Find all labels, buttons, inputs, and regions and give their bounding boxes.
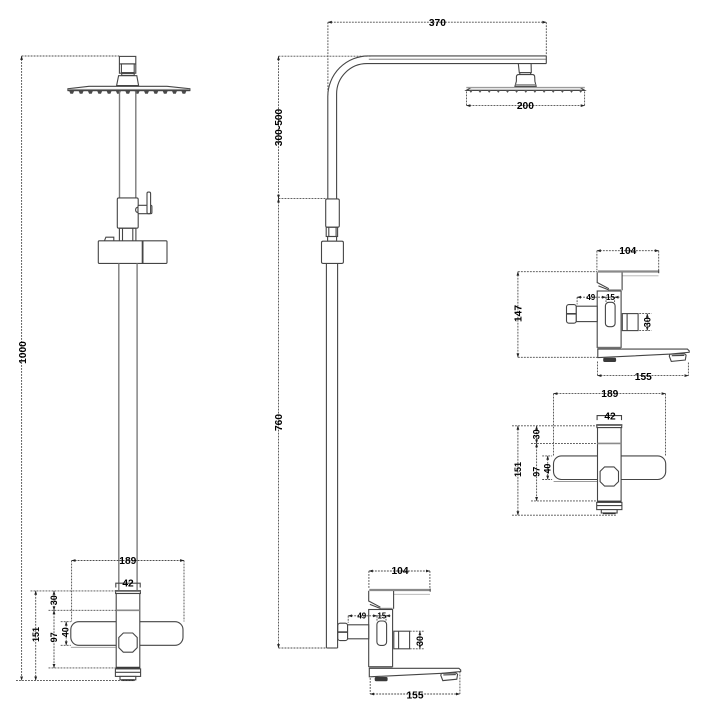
riser pipe lower segment: [119, 263, 137, 590]
dim 370 lines: [328, 21, 546, 23]
svg-text:370: 370: [429, 18, 446, 29]
svg-text:151: 151: [31, 627, 41, 642]
aerator (left front): [120, 676, 136, 679]
svg-text:104: 104: [392, 566, 409, 577]
svg-text:15: 15: [377, 612, 386, 621]
svg-text:30: 30: [532, 429, 542, 439]
slider bracket: [98, 241, 167, 264]
lever (side, middle view): [369, 589, 430, 591]
bottom aerator dark (middle view): [375, 677, 388, 681]
svg-text:104: 104: [619, 246, 636, 257]
spout tip aerator (middle view): [441, 673, 458, 681]
arrows dim 189 left: [71, 559, 75, 562]
slider bracket tab: [104, 237, 114, 241]
dim 104 right lines: [597, 250, 659, 252]
diverter body: [117, 198, 138, 228]
dim 155 right lines: [598, 375, 689, 377]
center knob (left front): [119, 633, 137, 652]
svg-text:40: 40: [61, 627, 71, 637]
dim 42 tick lines (solid): [116, 416, 622, 588]
head cap (side): [515, 75, 536, 87]
dim 1000 lines: [21, 56, 23, 680]
dim 40 right lines: [547, 456, 549, 480]
bottom plate (right front): [597, 502, 622, 509]
bottom plate (left front): [115, 669, 140, 677]
arrows dim 30 left: [53, 591, 56, 595]
arrows dim 30 right-top: [646, 313, 649, 317]
svg-text:300-500: 300-500: [274, 108, 285, 146]
adjuster sleeve: [326, 199, 340, 227]
dim 200 lines: [467, 105, 585, 107]
svg-text:189: 189: [119, 556, 136, 567]
head nozzles (side): [469, 90, 583, 93]
center knob (right front): [600, 467, 618, 486]
body bottom edge (left front): [116, 667, 140, 669]
body divider line (left front): [116, 609, 140, 611]
svg-text:760: 760: [274, 414, 285, 431]
arrows dim 1000: [20, 56, 23, 60]
mixer body (right front): [598, 428, 622, 502]
shower head plate (side): [466, 88, 585, 91]
body bottom edge (right front): [597, 501, 621, 503]
svg-text:147: 147: [514, 305, 525, 322]
svg-text:42: 42: [604, 411, 616, 422]
dim 49 middle lines: [348, 615, 377, 617]
riser pipe (upper, side): [327, 97, 329, 199]
supply hex nut (right view): [567, 305, 577, 324]
dim 147 lines: [517, 272, 519, 358]
head connector stem (side): [518, 64, 531, 73]
head nozzles: [69, 91, 186, 94]
spout tip aerator (right view): [669, 354, 686, 362]
arrows dim 189 right: [553, 392, 557, 395]
diverter handle stem: [136, 207, 138, 212]
arrows dim 40 right: [546, 456, 549, 460]
connector ring: [122, 73, 135, 75]
dim 40 left lines: [65, 622, 67, 646]
mixer body (side, right view): [597, 291, 621, 347]
dim 30 middle lines: [419, 631, 421, 649]
svg-text:200: 200: [517, 101, 534, 112]
arrows dim 151 left: [34, 591, 37, 595]
dim 97 left lines: [53, 610, 55, 668]
bottom aerator dark (right view): [603, 358, 616, 362]
handle bar (left front): [71, 622, 183, 646]
dim 15 right lines: [606, 296, 620, 298]
lever neck wedge (right view): [597, 272, 609, 288]
cartridge (middle view): [377, 621, 387, 645]
sleeve neck: [326, 227, 337, 236]
connector trapezoid: [117, 76, 139, 86]
svg-text:155: 155: [407, 690, 424, 701]
svg-text:30: 30: [415, 636, 425, 646]
arrows dim 40 left: [65, 621, 68, 625]
supply hex nut (middle view): [338, 623, 348, 640]
ceiling connector block: [119, 56, 135, 73]
dim 189 left lines: [72, 560, 184, 562]
arrows dim 104 middle: [369, 570, 373, 573]
riser pipe (lower, side): [325, 263, 327, 648]
svg-text:97: 97: [532, 467, 542, 477]
cartridge (right view): [605, 302, 615, 326]
dim 104 middle lines: [369, 570, 430, 572]
dim 760 lines: [278, 199, 280, 648]
lever neck wedge (middle view): [369, 591, 381, 607]
arrows dim 15 right: [614, 296, 618, 299]
shower head plate (front): [68, 86, 190, 90]
arrows dim 147: [517, 271, 520, 275]
arrows dim 104 right: [597, 249, 601, 252]
body bottom shade (middle view): [369, 666, 393, 668]
dim 42 right: [597, 416, 621, 421]
mixer body (left front): [116, 594, 140, 668]
arrows dim 300-500: [277, 56, 280, 60]
arm bend inner: [337, 64, 367, 94]
dim 151 left lines: [35, 591, 37, 681]
dim 97 right lines: [536, 443, 538, 501]
dim 15 middle lines: [377, 615, 391, 617]
supply tube (middle view): [348, 625, 369, 639]
mixer wall flange (left front): [116, 591, 141, 594]
svg-text:151: 151: [513, 462, 523, 477]
arm bend outer: [328, 56, 369, 97]
body bottom shade (right view): [597, 347, 621, 349]
arrows dim 155 middle: [370, 693, 374, 696]
svg-text:155: 155: [635, 372, 652, 383]
svg-text:40: 40: [543, 464, 553, 474]
dim 30 right-bottom lines: [536, 426, 538, 444]
arrows dim 155 right: [597, 374, 601, 377]
arrows dim 97 left: [53, 610, 56, 614]
lever (side, right view): [598, 270, 659, 272]
svg-text:189: 189: [601, 389, 618, 400]
top arm horizontal pipe: [368, 55, 546, 57]
svg-text:1000: 1000: [18, 341, 29, 364]
arrows dim 30 middle: [419, 631, 422, 635]
shower outlet block (right view): [622, 314, 638, 331]
riser pipe upper segment: [120, 91, 136, 198]
svg-text:30: 30: [49, 595, 59, 605]
svg-text:42: 42: [122, 578, 134, 589]
dim 49 right lines: [577, 296, 606, 298]
arrows dim 151 right: [517, 426, 520, 430]
dim 189 right lines: [554, 393, 666, 395]
arrows dim 15 middle: [386, 614, 390, 617]
dim 30 left lines: [53, 591, 55, 610]
head connector ring: [520, 73, 531, 75]
arrows dim 760: [277, 198, 280, 202]
neck cap: [328, 237, 337, 242]
svg-text:15: 15: [606, 293, 615, 302]
arrows dim 97 right: [535, 443, 538, 447]
dim 155 middle lines: [370, 693, 460, 695]
diverter neck: [119, 228, 135, 241]
spout (side, right view): [598, 349, 689, 358]
arrows dim 200: [466, 104, 470, 107]
svg-text:30: 30: [642, 317, 652, 327]
arrows dim 370: [328, 21, 332, 24]
aerator (right front): [601, 510, 617, 513]
diverter lever: [147, 192, 151, 214]
arrows dim 30 right-bottom: [535, 426, 538, 430]
dim 300-500 lines: [278, 56, 280, 198]
slider block (side): [322, 241, 344, 263]
svg-text:97: 97: [49, 632, 59, 642]
shower outlet block (middle view): [394, 631, 410, 649]
dim 42 left: [116, 583, 140, 587]
svg-text:49: 49: [586, 293, 595, 302]
dim 30 right-top lines: [646, 314, 648, 331]
mixer wall flange (right front): [597, 425, 622, 428]
supply tube (right view): [576, 306, 597, 321]
body divider line (right front): [598, 442, 622, 444]
handle bar (right front): [554, 456, 666, 480]
dim 151 right lines: [517, 426, 519, 515]
spout (side, middle view): [369, 668, 460, 677]
svg-text:49: 49: [357, 612, 366, 621]
mixer body (side, middle view): [369, 610, 393, 667]
arrows dim 49 right: [577, 296, 581, 299]
arrows dim 49 middle: [348, 614, 352, 617]
